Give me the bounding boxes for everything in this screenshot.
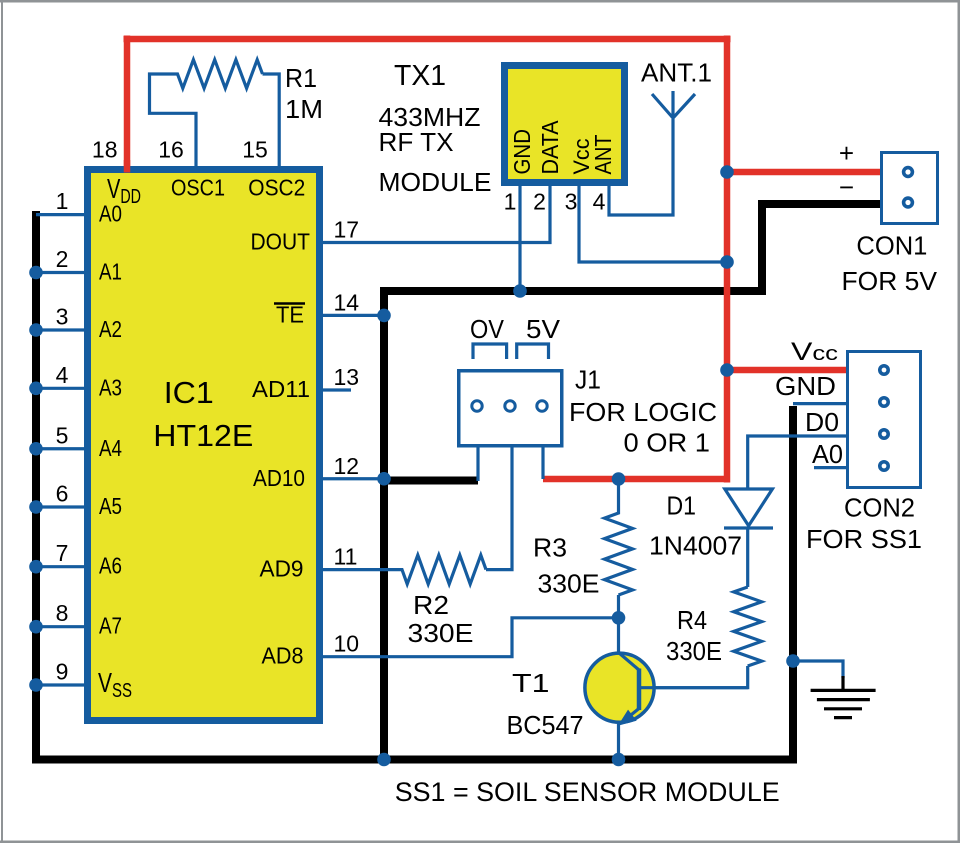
svg-text:GND: GND [509, 129, 535, 175]
svg-text:R4: R4 [677, 605, 707, 635]
svg-text:A0: A0 [99, 201, 122, 227]
svg-text:5V: 5V [526, 314, 561, 344]
svg-text:2: 2 [56, 246, 69, 272]
svg-text:A1: A1 [99, 259, 122, 285]
svg-text:330E: 330E [538, 569, 600, 599]
svg-text:2: 2 [533, 189, 546, 215]
svg-text:TX1: TX1 [394, 60, 446, 92]
svg-text:+: + [839, 138, 854, 168]
svg-text:SS1 = SOIL SENSOR MODULE: SS1 = SOIL SENSOR MODULE [395, 777, 780, 807]
svg-text:AD8: AD8 [262, 643, 304, 669]
svg-text:IC1: IC1 [164, 375, 214, 410]
svg-text:AD10: AD10 [253, 465, 305, 491]
svg-text:Vcc: Vcc [791, 338, 838, 366]
svg-text:DATA: DATA [537, 120, 563, 175]
svg-text:OSC1: OSC1 [171, 175, 225, 201]
svg-text:3: 3 [565, 189, 578, 215]
svg-text:TE: TE [276, 301, 304, 327]
svg-text:1: 1 [504, 189, 517, 215]
svg-text:330E: 330E [666, 636, 722, 666]
svg-text:A2: A2 [99, 316, 122, 342]
svg-text:12: 12 [334, 453, 360, 479]
svg-text:4: 4 [56, 362, 69, 388]
svg-text:14: 14 [334, 289, 360, 315]
svg-text:1M: 1M [285, 94, 323, 124]
svg-text:FOR 5V: FOR 5V [842, 266, 938, 296]
svg-text:RF TX: RF TX [379, 127, 454, 157]
svg-text:MODULE: MODULE [379, 167, 492, 197]
svg-text:8: 8 [56, 600, 69, 626]
svg-text:AD9: AD9 [260, 556, 304, 582]
svg-text:11: 11 [334, 544, 358, 570]
svg-text:D1: D1 [667, 491, 697, 521]
svg-text:AD11: AD11 [252, 376, 310, 402]
svg-text:CON2: CON2 [844, 493, 915, 523]
svg-text:5: 5 [56, 422, 69, 448]
svg-text:9: 9 [56, 659, 69, 685]
svg-text:7: 7 [56, 540, 69, 566]
svg-text:18: 18 [92, 137, 118, 163]
svg-text:17: 17 [334, 217, 360, 243]
svg-text:1: 1 [56, 188, 69, 214]
svg-text:1N4007: 1N4007 [649, 531, 742, 561]
svg-text:0 OR 1: 0 OR 1 [624, 428, 711, 458]
svg-text:13: 13 [334, 364, 360, 390]
svg-text:4: 4 [593, 189, 606, 215]
svg-text:ANT: ANT [590, 135, 616, 175]
svg-text:R1: R1 [285, 63, 317, 93]
svg-text:D0: D0 [805, 407, 839, 437]
svg-text:ANT.1: ANT.1 [641, 58, 712, 88]
svg-text:10: 10 [334, 631, 360, 657]
svg-text:3: 3 [56, 304, 69, 330]
svg-text:−: − [839, 172, 854, 202]
svg-text:HT12E: HT12E [153, 418, 253, 453]
svg-text:DOUT: DOUT [251, 229, 311, 255]
svg-text:OV: OV [470, 314, 505, 344]
svg-text:R3: R3 [533, 533, 567, 563]
svg-text:16: 16 [158, 137, 184, 163]
svg-text:A0: A0 [812, 439, 843, 469]
svg-text:FOR SS1: FOR SS1 [806, 524, 922, 554]
svg-text:A4: A4 [99, 435, 122, 461]
svg-text:A6: A6 [99, 553, 122, 579]
svg-text:BC547: BC547 [507, 710, 584, 740]
svg-text:A3: A3 [99, 374, 122, 400]
svg-text:J1: J1 [575, 365, 601, 395]
svg-text:CON1: CON1 [856, 231, 927, 261]
svg-text:FOR LOGIC: FOR LOGIC [569, 397, 717, 427]
svg-text:OSC2: OSC2 [248, 175, 305, 201]
svg-text:A7: A7 [99, 613, 122, 639]
svg-text:6: 6 [56, 481, 69, 507]
svg-text:R2: R2 [413, 590, 449, 620]
svg-text:330E: 330E [408, 618, 474, 648]
svg-text:15: 15 [242, 137, 268, 163]
svg-text:T1: T1 [512, 668, 550, 698]
svg-text:GND: GND [775, 371, 836, 401]
svg-text:A5: A5 [99, 493, 122, 519]
